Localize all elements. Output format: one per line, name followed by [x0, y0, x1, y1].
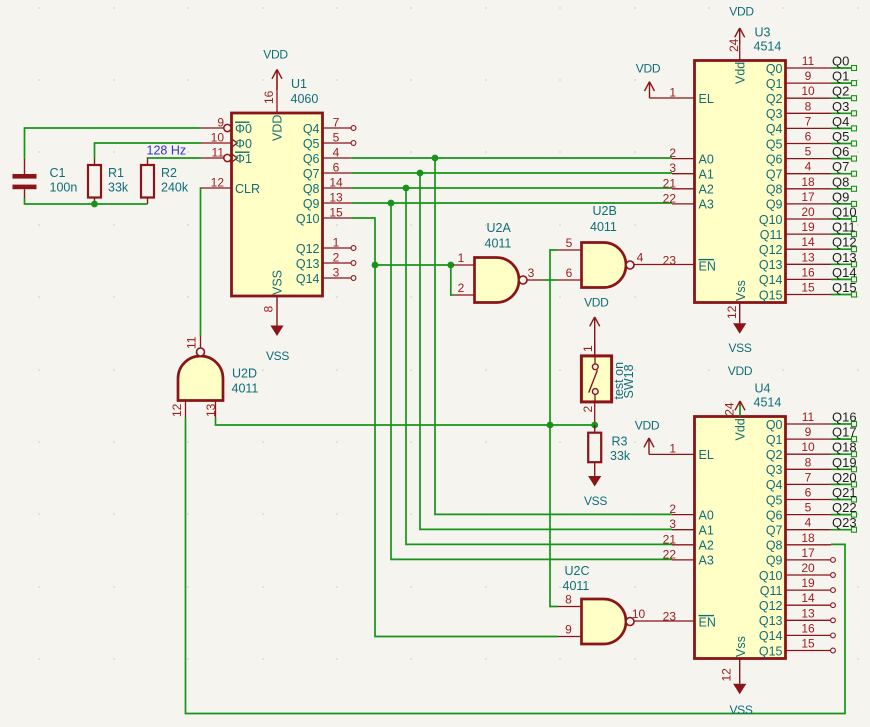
- U2C pin 9: [558, 623, 582, 637]
- op U1 4060 body: [232, 77, 323, 296]
- svg-text:Q4: Q4: [766, 122, 783, 136]
- svg-text:33k: 33k: [610, 449, 631, 463]
- svg-text:22: 22: [663, 547, 677, 561]
- wire branch to U2A pin 1: [375, 264, 453, 266]
- svg-text:VDD: VDD: [728, 364, 753, 378]
- op-amp U2A 4011 NAND: [475, 221, 528, 303]
- U3 pin 16 Q14: [759, 265, 857, 287]
- U4 pin 15 Q15: [759, 637, 836, 659]
- U2C pin 10 output to U4 EN: [632, 607, 695, 621]
- svg-text:Q0: Q0: [832, 54, 849, 69]
- junction A3: [388, 200, 395, 207]
- svg-text:Q8: Q8: [766, 539, 783, 553]
- wire C1 top to U1 pin 9: [25, 128, 202, 159]
- U3 pin 4 Q7: [766, 160, 857, 182]
- svg-text:VSS: VSS: [584, 494, 607, 508]
- svg-text:8: 8: [565, 593, 572, 607]
- svg-text:U4: U4: [755, 382, 771, 396]
- svg-text:15: 15: [329, 206, 343, 220]
- node Q6: [832, 144, 849, 159]
- svg-text:Q13: Q13: [296, 257, 320, 271]
- svg-text:Q4: Q4: [766, 478, 783, 492]
- U2A pin 1: [453, 251, 475, 265]
- U4 pin 3 A1: [669, 517, 714, 537]
- svg-text:Q9: Q9: [766, 554, 783, 568]
- svg-text:21: 21: [663, 176, 677, 190]
- power VSS below U3: [728, 303, 751, 356]
- svg-text:Q22: Q22: [832, 500, 857, 515]
- svg-text:VSS: VSS: [266, 349, 289, 363]
- U1 pin 2 Q13: [296, 251, 356, 271]
- svg-text:Q12: Q12: [296, 242, 320, 256]
- U3 pin 22 A3: [663, 191, 714, 211]
- U4 pin 7 Q4: [766, 470, 857, 492]
- svg-text:Q2: Q2: [832, 84, 849, 99]
- svg-text:Q11: Q11: [832, 220, 856, 235]
- U2D pin 13: [204, 401, 218, 418]
- svg-text:5: 5: [333, 131, 340, 145]
- label 128 Hz: [147, 144, 187, 158]
- wire C1 bottom rail: [25, 198, 148, 204]
- svg-text:3: 3: [669, 161, 676, 175]
- U1 pin 15 Q10: [296, 206, 352, 226]
- U4 pin 2 A0: [669, 502, 714, 522]
- svg-text:Q14: Q14: [296, 272, 320, 286]
- svg-text:Q2: Q2: [766, 448, 783, 462]
- svg-text:Q10: Q10: [296, 212, 320, 226]
- svg-text:VSS: VSS: [271, 270, 285, 295]
- op-amp U2D 4011 NAND: [178, 348, 258, 401]
- U3 pin 15 Q15: [759, 281, 857, 303]
- node Q2: [832, 84, 849, 99]
- node Q23: [832, 515, 857, 530]
- svg-text:10: 10: [211, 131, 225, 145]
- junction A1: [417, 170, 424, 177]
- power VSS below R3: [584, 468, 607, 508]
- svg-text:Q14: Q14: [832, 265, 857, 280]
- U2C pin 8: [558, 593, 582, 607]
- U1 pin 6 Q7: [303, 161, 352, 181]
- U1 pin 8 VSS bottom: [262, 270, 285, 313]
- U3 pin 13 Q13: [759, 250, 857, 272]
- U2B pin 5: [558, 236, 582, 250]
- U1 pin 3 Q14: [296, 266, 356, 286]
- svg-text:R3: R3: [612, 435, 628, 449]
- svg-text:4: 4: [637, 251, 644, 265]
- U2B pin 4 output to U3 EN: [634, 251, 695, 265]
- power VDD above U3: [729, 5, 754, 45]
- junction Q10/U2A: [372, 262, 379, 269]
- node Q19: [832, 455, 857, 470]
- svg-text:Φ0: Φ0: [235, 122, 252, 136]
- svg-text:Q3: Q3: [832, 99, 849, 114]
- svg-text:5: 5: [566, 236, 573, 250]
- svg-text:Φ0: Φ0: [235, 137, 252, 151]
- U4 pin 19 Q11: [760, 576, 836, 598]
- capacitor C1: [13, 159, 78, 198]
- svg-text:VDD: VDD: [635, 419, 660, 433]
- op U3 4514 body: [695, 26, 786, 303]
- svg-text:Q0: Q0: [766, 62, 783, 76]
- power VSS below U1: [266, 296, 289, 363]
- U3 pin 20 Q10: [759, 205, 857, 227]
- wire Q6 to U3 A0: [352, 157, 673, 159]
- node Q22: [832, 500, 857, 515]
- node Q5: [832, 129, 849, 144]
- wire A1 drop to U4: [420, 173, 672, 529]
- U2A pin 2: [453, 281, 475, 295]
- svg-text:SW18: SW18: [622, 364, 636, 398]
- svg-text:4: 4: [333, 146, 340, 160]
- svg-text:Q15: Q15: [759, 644, 783, 658]
- svg-text:Q12: Q12: [759, 599, 783, 613]
- svg-text:1: 1: [581, 345, 595, 352]
- svg-text:Q20: Q20: [832, 470, 857, 485]
- U3 pin 18 Q8: [766, 175, 857, 197]
- node Q16: [832, 410, 857, 425]
- U3 pin 11 Q0: [766, 54, 857, 76]
- op-amp U2B 4011 NAND: [582, 204, 635, 288]
- U4 pin 5 Q6: [766, 501, 857, 523]
- junction test net: [547, 422, 554, 429]
- svg-text:3: 3: [669, 517, 676, 531]
- svg-text:Q15: Q15: [759, 288, 783, 302]
- resistor R1: [88, 159, 129, 205]
- svg-text:16: 16: [801, 265, 815, 279]
- U3 pin 23 EN: [663, 253, 716, 273]
- node Q7: [832, 159, 849, 174]
- svg-text:20: 20: [801, 205, 815, 219]
- U1 pin 9 phi0: [201, 116, 252, 136]
- U4 pin 4 Q7: [766, 516, 857, 538]
- svg-text:VDD: VDD: [584, 296, 609, 310]
- svg-text:15: 15: [801, 281, 815, 295]
- svg-text:1: 1: [458, 251, 465, 265]
- U4 pin 12 Vss: [720, 636, 749, 681]
- svg-text:2: 2: [669, 502, 676, 516]
- U1 pin 10 phi0: [201, 131, 252, 151]
- svg-text:19: 19: [801, 220, 815, 234]
- svg-text:Q7: Q7: [303, 167, 320, 181]
- svg-text:12: 12: [211, 176, 225, 190]
- svg-text:14: 14: [801, 235, 815, 249]
- U4 pin 1 EL: [669, 442, 714, 462]
- node Q21: [832, 485, 857, 500]
- svg-text:A2: A2: [699, 183, 714, 197]
- junction R1 bottom: [91, 201, 98, 208]
- U3 pin 12 Vss: [725, 280, 748, 319]
- node Q17: [832, 425, 857, 440]
- U4 pin 24 Vdd: [723, 402, 748, 440]
- svg-text:1: 1: [669, 442, 676, 456]
- svg-text:Q8: Q8: [832, 174, 849, 189]
- U2A pin 3 output: [527, 266, 543, 280]
- wire A2 drop to U4: [406, 188, 672, 544]
- U3 pin 9 Q1: [766, 69, 857, 91]
- svg-text:11: 11: [802, 54, 815, 68]
- U4 pin 16 Q14: [759, 621, 836, 643]
- node Q10: [832, 205, 857, 220]
- svg-text:C1: C1: [50, 166, 66, 180]
- wire U2D out to CLR: [200, 188, 203, 336]
- svg-text:17: 17: [801, 190, 815, 204]
- U1 pin 14 Q8: [303, 176, 352, 196]
- node Q20: [832, 470, 857, 485]
- svg-text:Q12: Q12: [759, 243, 783, 257]
- svg-text:EN: EN: [699, 260, 716, 274]
- svg-text:EN: EN: [699, 616, 716, 630]
- svg-text:U2D: U2D: [232, 367, 257, 381]
- svg-text:Q3: Q3: [766, 463, 783, 477]
- svg-text:7: 7: [333, 116, 340, 130]
- svg-text:15: 15: [801, 637, 815, 651]
- U3 pin 1 EL: [669, 86, 714, 106]
- svg-text:U3: U3: [755, 26, 771, 40]
- svg-text:Q9: Q9: [766, 198, 783, 212]
- svg-text:24: 24: [727, 38, 741, 52]
- svg-text:R1: R1: [108, 166, 124, 180]
- U3 pin 3 A1: [669, 161, 714, 181]
- svg-text:Q6: Q6: [303, 152, 320, 166]
- U1 pin 7 Q4: [303, 116, 356, 136]
- svg-text:6: 6: [566, 266, 573, 280]
- wire Q7 to U3 A1: [352, 172, 673, 174]
- svg-text:4: 4: [805, 516, 812, 530]
- junction A0: [432, 155, 439, 162]
- svg-text:13: 13: [204, 403, 218, 417]
- svg-text:17: 17: [801, 546, 815, 560]
- svg-text:Q18: Q18: [832, 440, 857, 455]
- svg-text:Φ1: Φ1: [235, 152, 252, 166]
- svg-text:Q9: Q9: [303, 197, 320, 211]
- node Q4: [832, 114, 849, 129]
- svg-text:Q7: Q7: [766, 524, 783, 538]
- U2D pin 12: [170, 401, 186, 418]
- svg-text:A3: A3: [699, 554, 714, 568]
- U4 pin 14 Q12: [759, 591, 836, 613]
- wire A0 drop to U4: [435, 158, 672, 514]
- U4 pin 6 Q5: [766, 486, 857, 508]
- node Q8: [832, 174, 849, 189]
- svg-text:9: 9: [805, 425, 812, 439]
- svg-text:33k: 33k: [108, 181, 129, 195]
- node Q1: [832, 69, 849, 84]
- SW18 pin 2: [581, 402, 595, 425]
- U3 pin 8 Q3: [766, 99, 857, 121]
- U1 pin 1 Q12: [296, 236, 356, 256]
- wire R2 top to U1 pin 11, net 128 Hz: [148, 157, 202, 160]
- svg-text:4011: 4011: [232, 382, 259, 396]
- svg-text:4011: 4011: [485, 237, 512, 251]
- U4 pin 22 A3: [663, 547, 714, 567]
- svg-text:Vss: Vss: [734, 636, 748, 657]
- svg-text:10: 10: [632, 607, 646, 621]
- svg-text:12: 12: [720, 668, 734, 682]
- svg-text:20: 20: [801, 561, 815, 575]
- junction R3 top: [591, 422, 598, 429]
- svg-text:Q1: Q1: [766, 77, 783, 91]
- svg-text:23: 23: [663, 609, 677, 623]
- svg-text:Q2: Q2: [766, 92, 783, 106]
- svg-text:VSS: VSS: [729, 703, 752, 717]
- wire Q10 down to U2C pin 9: [352, 218, 558, 637]
- svg-text:100n: 100n: [50, 181, 78, 195]
- svg-text:9: 9: [805, 69, 812, 83]
- U4 pin 21 A2: [663, 532, 714, 552]
- svg-text:Vdd: Vdd: [734, 418, 748, 440]
- node Q3: [832, 99, 849, 114]
- svg-text:Q8: Q8: [766, 183, 783, 197]
- U4 pin 20 Q10: [759, 561, 836, 583]
- svg-text:4011: 4011: [590, 220, 617, 234]
- switch SW18 test on: [581, 356, 636, 402]
- wire VDD to U4 EL: [649, 453, 695, 455]
- U3 pin 24 Vdd: [727, 38, 748, 84]
- svg-text:A0: A0: [699, 508, 714, 522]
- power VDD above U4: [728, 364, 753, 410]
- svg-text:14: 14: [801, 591, 815, 605]
- U3 pin 6 Q5: [766, 130, 857, 152]
- svg-text:Q9: Q9: [832, 189, 849, 204]
- svg-text:1: 1: [333, 236, 340, 250]
- svg-text:23: 23: [663, 253, 677, 267]
- wire U2D pin13 to R3/switch node: [216, 418, 595, 426]
- svg-text:A2: A2: [699, 539, 714, 553]
- svg-text:Q8: Q8: [303, 182, 320, 196]
- svg-text:Q0: Q0: [766, 418, 783, 432]
- svg-text:11: 11: [802, 410, 815, 424]
- svg-text:U2C: U2C: [565, 564, 590, 578]
- svg-text:Q4: Q4: [303, 122, 320, 136]
- U4 pin 10 Q2: [766, 440, 857, 462]
- U1 pin 11 phi1: [201, 146, 252, 166]
- svg-text:Q17: Q17: [832, 425, 857, 440]
- U3 pin 14 Q12: [759, 235, 857, 257]
- svg-text:Q6: Q6: [832, 144, 849, 159]
- svg-text:10: 10: [801, 84, 815, 98]
- svg-text:VSS: VSS: [728, 341, 751, 355]
- svg-text:4060: 4060: [291, 92, 319, 106]
- svg-text:Q13: Q13: [832, 250, 857, 265]
- svg-text:Q10: Q10: [759, 569, 783, 583]
- svg-text:6: 6: [333, 161, 340, 175]
- svg-text:19: 19: [801, 576, 815, 590]
- svg-text:Q14: Q14: [759, 273, 783, 287]
- wire VDD to U3 EL: [650, 97, 695, 99]
- junction U2A pins: [447, 262, 454, 269]
- svg-text:4514: 4514: [754, 40, 782, 54]
- svg-text:2: 2: [581, 406, 595, 413]
- power VDD at U3 EL: [636, 62, 661, 99]
- U3 pin 17 Q9: [766, 190, 857, 212]
- resistor R3: [588, 425, 631, 468]
- svg-text:Q19: Q19: [832, 455, 857, 470]
- svg-text:Q5: Q5: [766, 493, 783, 507]
- SW18 pin 1: [581, 340, 595, 356]
- svg-text:11: 11: [185, 336, 199, 349]
- svg-text:U2B: U2B: [593, 204, 617, 218]
- svg-text:Q11: Q11: [760, 228, 783, 242]
- svg-text:21: 21: [663, 532, 677, 546]
- svg-text:18: 18: [801, 531, 815, 545]
- U1 pin 13 Q9: [303, 191, 352, 211]
- node Q13: [832, 250, 857, 265]
- U4 pin 13 Q13: [759, 606, 836, 628]
- svg-text:6: 6: [805, 486, 812, 500]
- svg-text:16: 16: [262, 90, 276, 104]
- svg-text:3: 3: [528, 266, 535, 280]
- svg-text:Q13: Q13: [759, 258, 783, 272]
- U1 pin 4 Q6: [303, 146, 352, 166]
- svg-text:9: 9: [565, 623, 572, 637]
- wire U2A out to U2B pin 6: [543, 279, 558, 281]
- op U4 4514 body: [695, 382, 786, 659]
- U2D pin 11 output to U1 CLR: [185, 336, 201, 349]
- U3 pin 2 A0: [669, 146, 714, 166]
- svg-text:Vdd: Vdd: [734, 62, 748, 84]
- U3 pin 21 A2: [663, 176, 714, 196]
- svg-text:Q1: Q1: [766, 433, 783, 447]
- wire branch to U2A pin 2: [451, 265, 453, 295]
- svg-text:Q7: Q7: [766, 168, 783, 182]
- svg-text:2: 2: [458, 281, 465, 295]
- U4 pin 9 Q1: [766, 425, 857, 447]
- svg-text:16: 16: [801, 621, 815, 635]
- svg-text:5: 5: [805, 501, 812, 515]
- svg-text:EL: EL: [699, 448, 714, 462]
- svg-text:Q11: Q11: [760, 584, 783, 598]
- node Q14: [832, 265, 857, 280]
- U3 pin 19 Q11: [760, 220, 857, 242]
- svg-text:2: 2: [333, 251, 340, 265]
- svg-text:VDD: VDD: [263, 48, 288, 62]
- svg-text:4514: 4514: [754, 396, 782, 410]
- svg-text:4: 4: [805, 160, 812, 174]
- U1 pin 5 Q5: [303, 131, 356, 151]
- svg-text:Q14: Q14: [759, 629, 783, 643]
- svg-text:8: 8: [805, 455, 812, 469]
- svg-text:2: 2: [669, 146, 676, 160]
- U3 pin 5 Q6: [766, 145, 857, 167]
- svg-text:7: 7: [805, 114, 812, 128]
- power VSS below U4: [729, 659, 752, 718]
- svg-text:6: 6: [805, 130, 812, 144]
- svg-text:18: 18: [801, 175, 815, 189]
- U4 pin 23 EN: [663, 609, 716, 629]
- U1 pin 16 VDD top: [262, 70, 285, 141]
- U3 pin 7 Q4: [766, 114, 857, 136]
- svg-text:Q10: Q10: [759, 213, 783, 227]
- svg-text:R2: R2: [161, 166, 177, 180]
- svg-text:A1: A1: [699, 168, 714, 182]
- svg-text:Q1: Q1: [832, 69, 849, 84]
- svg-text:Q13: Q13: [759, 614, 783, 628]
- svg-text:13: 13: [801, 606, 815, 620]
- svg-text:Q6: Q6: [766, 508, 783, 522]
- svg-text:24: 24: [723, 402, 737, 416]
- svg-text:Q5: Q5: [303, 137, 320, 151]
- svg-text:VDD: VDD: [271, 115, 285, 141]
- U4 pin 8 Q3: [766, 455, 857, 477]
- svg-text:Q21: Q21: [832, 485, 857, 500]
- svg-text:11: 11: [212, 146, 225, 160]
- svg-text:Q5: Q5: [832, 129, 849, 144]
- svg-text:128 Hz: 128 Hz: [147, 144, 187, 158]
- node Q15: [832, 280, 857, 295]
- svg-text:7: 7: [805, 470, 812, 484]
- svg-text:A1: A1: [699, 524, 714, 538]
- node Q18: [832, 440, 857, 455]
